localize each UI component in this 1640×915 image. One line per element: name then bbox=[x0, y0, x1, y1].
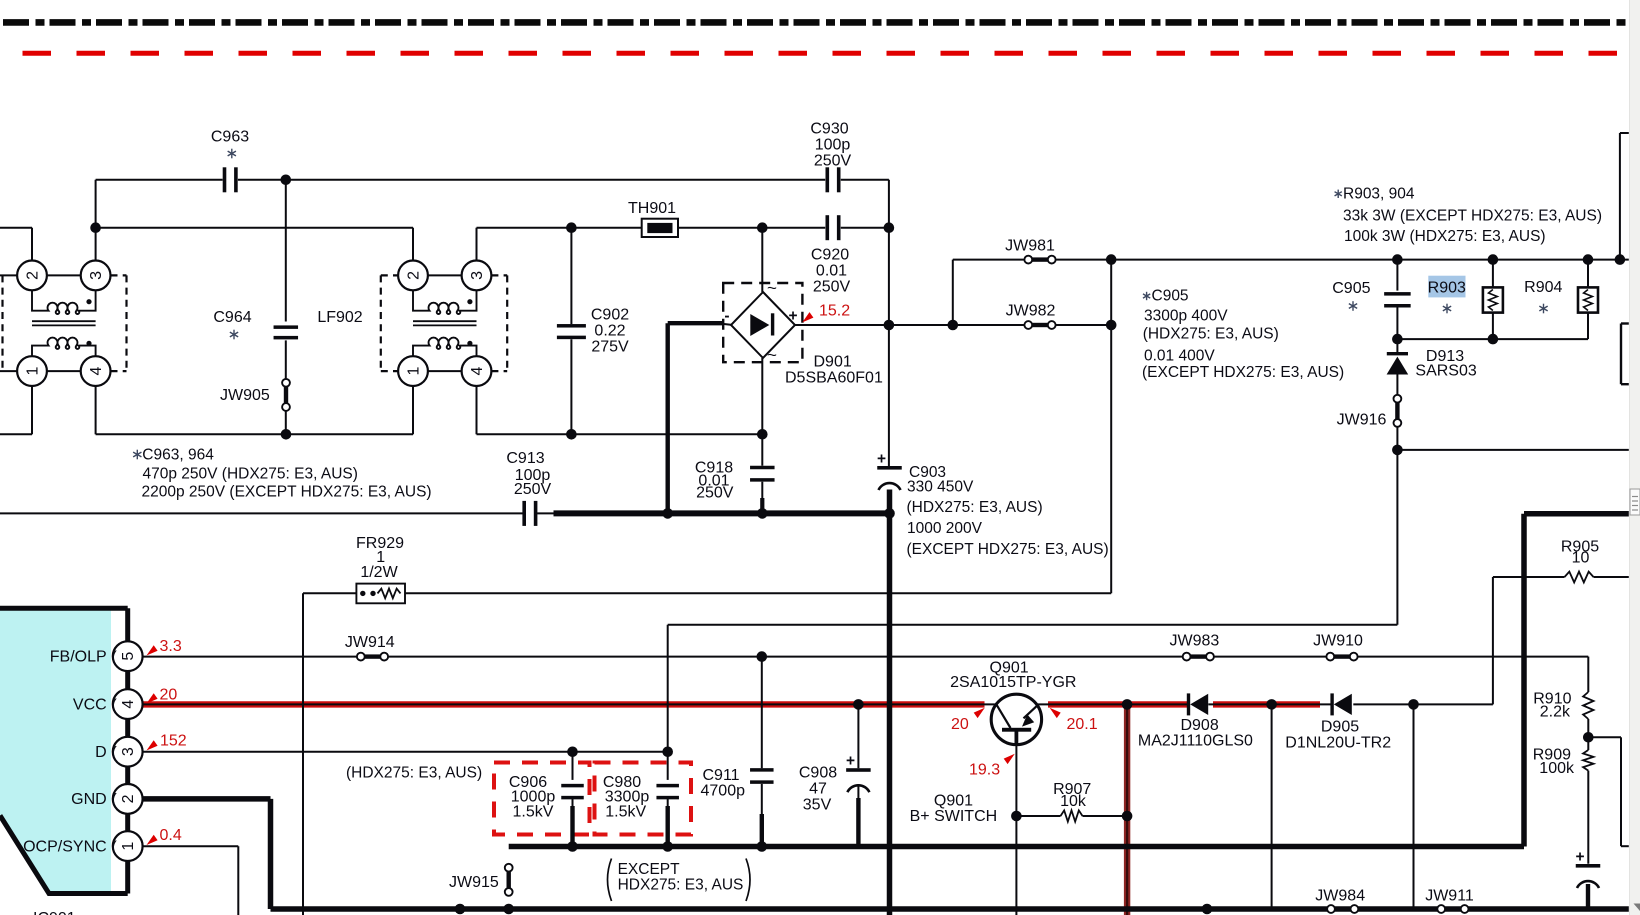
svg-text:(HDX275: E3, AUS): (HDX275: E3, AUS) bbox=[907, 499, 1043, 516]
svg-text:C908: C908 bbox=[799, 765, 837, 782]
svg-text:B+ SWITCH: B+ SWITCH bbox=[910, 808, 998, 825]
svg-text:D905: D905 bbox=[1321, 719, 1359, 736]
svg-text:4: 4 bbox=[469, 367, 486, 376]
svg-text:LF902: LF902 bbox=[317, 309, 362, 326]
svg-text:D901: D901 bbox=[814, 354, 852, 371]
svg-text:HDX275: E3, AUS: HDX275: E3, AUS bbox=[618, 877, 744, 894]
svg-text:100k: 100k bbox=[1539, 760, 1575, 777]
svg-text:D: D bbox=[95, 744, 107, 761]
svg-text:1.5kV: 1.5kV bbox=[513, 804, 554, 821]
svg-text:JW910: JW910 bbox=[1313, 633, 1363, 650]
svg-text:3: 3 bbox=[469, 271, 486, 280]
svg-text:(HDX275: E3, AUS): (HDX275: E3, AUS) bbox=[1143, 326, 1279, 343]
svg-text:10: 10 bbox=[1572, 550, 1590, 567]
svg-text:275V: 275V bbox=[591, 339, 629, 356]
svg-text:+: + bbox=[846, 753, 855, 770]
svg-text:4: 4 bbox=[120, 700, 137, 709]
svg-text:(: ( bbox=[112, 839, 118, 856]
svg-text:1/2W: 1/2W bbox=[360, 564, 398, 581]
svg-text:2SA1015TP-YGR: 2SA1015TP-YGR bbox=[950, 674, 1076, 691]
svg-text:JW915: JW915 bbox=[449, 874, 499, 891]
svg-text:MA2J1110GLS0: MA2J1110GLS0 bbox=[1138, 733, 1253, 750]
svg-text:100p: 100p bbox=[815, 137, 851, 154]
svg-text:C911: C911 bbox=[703, 767, 740, 784]
svg-text:VCC: VCC bbox=[73, 696, 107, 713]
svg-text:JW982: JW982 bbox=[1006, 303, 1056, 320]
svg-text:20.1: 20.1 bbox=[1067, 716, 1098, 733]
svg-text:(EXCEPT HDX275: E3, AUS): (EXCEPT HDX275: E3, AUS) bbox=[1142, 364, 1344, 381]
svg-text:(HDX275: E3, AUS): (HDX275: E3, AUS) bbox=[346, 765, 482, 782]
svg-text:3: 3 bbox=[120, 747, 137, 756]
svg-text:(: ( bbox=[112, 649, 118, 666]
svg-text:-: - bbox=[724, 308, 729, 325]
svg-text:2: 2 bbox=[120, 794, 137, 803]
svg-text:2.2k: 2.2k bbox=[1540, 703, 1571, 720]
svg-text:5: 5 bbox=[120, 652, 137, 661]
svg-text:35V: 35V bbox=[803, 797, 832, 814]
svg-text:TH901: TH901 bbox=[628, 200, 676, 217]
svg-text:33k 3W (EXCEPT HDX275: E3, AUS: 33k 3W (EXCEPT HDX275: E3, AUS) bbox=[1343, 208, 1602, 225]
svg-text:+: + bbox=[1575, 849, 1584, 866]
svg-text:2: 2 bbox=[405, 271, 422, 280]
svg-text:C963, 964: C963, 964 bbox=[142, 447, 214, 464]
svg-text:JW984: JW984 bbox=[1315, 888, 1365, 905]
svg-text:152: 152 bbox=[160, 733, 187, 750]
svg-text:(: ( bbox=[112, 697, 118, 714]
svg-text:3: 3 bbox=[88, 271, 105, 280]
svg-text:C905: C905 bbox=[1332, 280, 1370, 297]
svg-text:250V: 250V bbox=[514, 481, 552, 498]
svg-text:1: 1 bbox=[120, 842, 137, 851]
svg-text:R903, 904: R903, 904 bbox=[1343, 185, 1415, 202]
svg-text:D1NL20U-TR2: D1NL20U-TR2 bbox=[1285, 734, 1391, 751]
svg-text:250V: 250V bbox=[814, 153, 852, 170]
svg-text:3300p 400V: 3300p 400V bbox=[1144, 308, 1228, 325]
svg-text:D908: D908 bbox=[1180, 717, 1218, 734]
svg-text:(: ( bbox=[112, 745, 118, 762]
svg-text:0.01: 0.01 bbox=[816, 263, 847, 280]
svg-text:C913: C913 bbox=[506, 450, 544, 467]
svg-text:C920: C920 bbox=[811, 247, 849, 264]
svg-text:250V: 250V bbox=[696, 485, 734, 502]
svg-text:19.3: 19.3 bbox=[969, 762, 1000, 779]
svg-text:SARS03: SARS03 bbox=[1415, 363, 1476, 380]
svg-text:3.3: 3.3 bbox=[160, 638, 182, 655]
svg-text:~: ~ bbox=[767, 279, 777, 298]
svg-text:470p 250V (HDX275: E3, AUS): 470p 250V (HDX275: E3, AUS) bbox=[143, 466, 358, 483]
svg-text:0.01 400V: 0.01 400V bbox=[1144, 348, 1215, 365]
svg-text:250V: 250V bbox=[813, 279, 851, 296]
svg-text:C930: C930 bbox=[810, 121, 848, 138]
svg-text:~: ~ bbox=[767, 346, 777, 365]
svg-text:(: ( bbox=[112, 792, 118, 809]
svg-text:20: 20 bbox=[951, 716, 969, 733]
svg-text:47: 47 bbox=[809, 781, 827, 798]
svg-text:4700p: 4700p bbox=[701, 783, 746, 800]
svg-text:FB/OLP: FB/OLP bbox=[50, 649, 107, 666]
svg-text:+: + bbox=[877, 451, 886, 468]
svg-text:R904: R904 bbox=[1524, 279, 1562, 296]
svg-text:+: + bbox=[788, 308, 797, 325]
svg-text:GND: GND bbox=[71, 791, 107, 808]
svg-text:EXCEPT: EXCEPT bbox=[618, 861, 681, 878]
svg-text:0.4: 0.4 bbox=[160, 827, 182, 844]
svg-text:JW981: JW981 bbox=[1005, 238, 1055, 255]
svg-text:100k 3W (HDX275: E3, AUS): 100k 3W (HDX275: E3, AUS) bbox=[1344, 228, 1546, 245]
svg-text:C963: C963 bbox=[211, 128, 249, 145]
svg-text:4: 4 bbox=[88, 367, 105, 376]
svg-text:JW983: JW983 bbox=[1170, 633, 1220, 650]
svg-text:C964: C964 bbox=[213, 309, 251, 326]
svg-text:330 450V: 330 450V bbox=[907, 478, 974, 495]
svg-text:JW911: JW911 bbox=[1425, 888, 1474, 905]
svg-text:0.22: 0.22 bbox=[594, 323, 625, 340]
svg-text:2: 2 bbox=[24, 271, 41, 280]
svg-text:(EXCEPT HDX275: E3, AUS): (EXCEPT HDX275: E3, AUS) bbox=[907, 541, 1109, 558]
svg-text:JW916: JW916 bbox=[1337, 412, 1387, 429]
svg-text:1: 1 bbox=[405, 367, 422, 376]
svg-text:1.5kV: 1.5kV bbox=[605, 804, 646, 821]
svg-text:IC901: IC901 bbox=[33, 910, 76, 915]
svg-text:2200p 250V (EXCEPT HDX275: E3,: 2200p 250V (EXCEPT HDX275: E3, AUS) bbox=[142, 484, 432, 501]
svg-text:15.2: 15.2 bbox=[819, 303, 850, 320]
svg-text:Q901: Q901 bbox=[934, 793, 973, 810]
svg-text:20: 20 bbox=[160, 687, 178, 704]
svg-text:10k: 10k bbox=[1060, 793, 1087, 810]
svg-text:R903: R903 bbox=[1428, 279, 1466, 296]
svg-text:JW905: JW905 bbox=[220, 387, 270, 404]
svg-text:C902: C902 bbox=[591, 307, 629, 324]
svg-text:OCP/SYNC: OCP/SYNC bbox=[23, 838, 107, 855]
svg-text:1000 200V: 1000 200V bbox=[907, 520, 983, 537]
svg-text:C905: C905 bbox=[1152, 288, 1189, 305]
svg-text:1: 1 bbox=[24, 367, 41, 376]
svg-text:JW914: JW914 bbox=[345, 634, 395, 651]
svg-text:D5SBA60F01: D5SBA60F01 bbox=[785, 370, 883, 387]
